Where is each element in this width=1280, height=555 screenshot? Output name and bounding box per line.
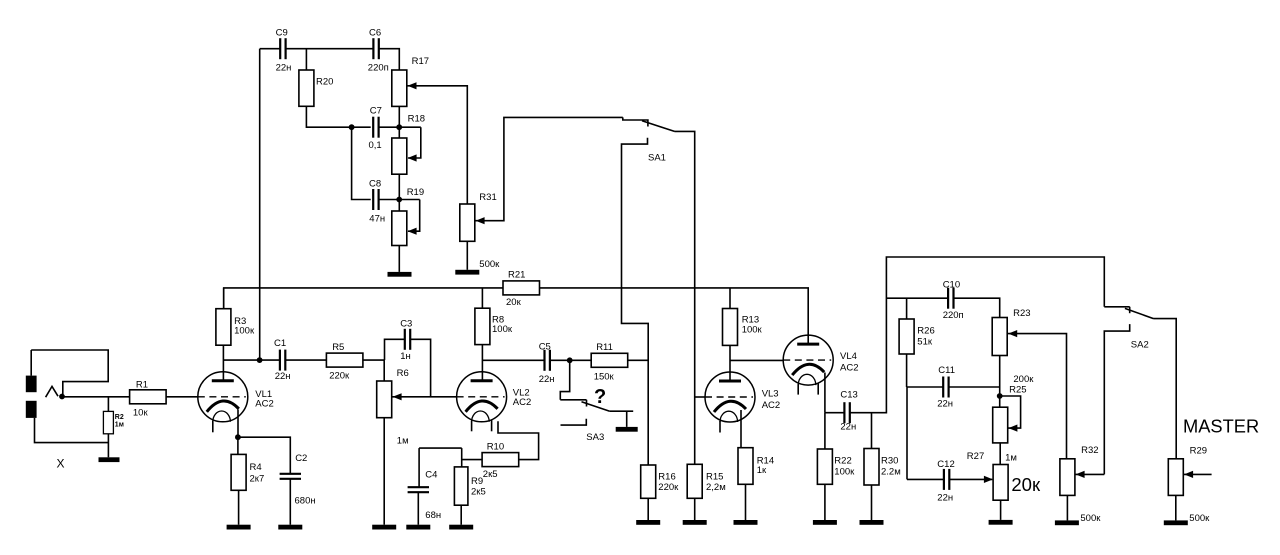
wire C7 to R18 node [379,126,421,128]
wire C1 row [223,359,280,361]
svg-text:500к: 500к [1189,513,1210,524]
wire C4 riser [418,448,420,487]
capacitor C3 [404,329,406,350]
ground below R27 [989,520,1013,525]
wire C7 node down to C8 row [352,127,371,199]
junction dot C1 row left riser [257,357,263,363]
wire R32 bottom to ground [1066,495,1068,520]
wire R1 to VL1 grid [166,396,198,398]
svg-text:1м: 1м [397,435,409,446]
capacitor C13 [843,402,845,423]
wire C1 to R5 [285,359,326,361]
svg-text:R6: R6 [397,368,409,379]
potentiometer R17 [392,70,407,106]
svg-text:150к: 150к [594,372,615,383]
svg-text:100к: 100к [234,326,255,337]
switch SA1 fixed contact [623,117,648,126]
resistor R13 [723,309,738,346]
switch SA2 fixed contact bar [1104,306,1129,308]
ground below C4 [406,525,430,530]
svg-text:R29: R29 [1190,446,1207,457]
junction dot R25 top node [997,393,1003,399]
svg-text:200к: 200к [1013,374,1034,385]
wire R27 bottom to ground [1000,500,1002,520]
svg-text:R4: R4 [250,462,262,473]
wire C2 bottom to ground [289,479,291,525]
wiper arrow of R25 [1008,425,1017,432]
wire R4 bottom to ground [238,490,240,524]
potentiometer R23 [992,318,1007,356]
resistor R16 [641,465,656,498]
ground below C2 [278,525,302,530]
svg-text:MASTER: MASTER [1183,416,1259,437]
svg-text:22н: 22н [276,63,292,74]
jack X bottom outline [35,418,109,443]
wire VL1 cathode [237,410,239,438]
wire R23 wiper to R32 top [1008,334,1067,459]
junction dot R18-R19 node [396,197,402,203]
wire R11 to R16 riser [628,359,649,361]
svg-text:R9: R9 [471,476,483,487]
svg-text:22н: 22н [539,374,555,385]
wire C6 to R17 top corner [379,49,400,70]
svg-text:R10: R10 [487,442,504,453]
potentiometer R32 [1060,459,1075,496]
ground below R19 [388,272,412,277]
wire R8 top from bus [481,288,483,308]
jack X upper contact block [26,376,37,393]
wire R17 bottom to R18 top [398,106,400,138]
svg-text:100к: 100к [742,325,763,336]
svg-text:C13: C13 [840,390,857,401]
wire VL3 plate node to VL4 grid [730,359,784,361]
wire R20 top riser [305,49,307,70]
svg-text:0,1: 0,1 [369,140,382,151]
wire C12 to R27 wiper [949,478,992,480]
potentiometer R31 [460,204,475,241]
svg-text:R23: R23 [1013,308,1030,319]
svg-text:AC2: AC2 [255,399,273,410]
capacitor C10 [947,288,949,309]
wire jack tip to R1 [62,396,130,398]
wire R32 wiper from SA2 [1076,473,1105,475]
svg-text:C4: C4 [425,470,437,481]
resistor R8 [475,308,490,344]
potentiometer R25 [993,407,1008,443]
svg-text:R18: R18 [408,114,425,125]
wiper arrow of R18 [408,154,417,161]
potentiometer R18 [392,138,407,174]
switch SA2 blade [1125,308,1154,318]
svg-text:R5: R5 [332,342,344,353]
svg-text:2к7: 2к7 [250,474,265,485]
svg-text:R20: R20 [316,77,333,88]
capacitor C9 [279,38,281,59]
capacitor C8 [372,189,374,210]
svg-text:220к: 220к [329,371,350,382]
potentiometer R27 [993,465,1008,501]
svg-text:C2: C2 [295,453,307,464]
switch SA3 blade [582,402,610,411]
svg-text:10к: 10к [133,408,149,419]
wire supply bus right segment to VL4 plate [540,288,809,345]
capacitor C1 [279,350,281,371]
wire R3 top from bus [223,288,225,309]
jack X top outline [31,350,108,394]
wire C13 to tone bus corner [850,257,1105,413]
wire cathode node to C2 [238,437,290,474]
wire R22 bottom to ground [824,484,826,520]
ground below R14 [734,520,758,525]
svg-text:20к: 20к [506,297,522,308]
wire R13 bottom to VL3 plate [729,345,731,381]
capacitor C4 [408,486,429,488]
resistor R11 [591,353,628,367]
jack X tip spring [46,386,58,397]
svg-text:R31: R31 [479,192,496,203]
wire R3 bottom to VL1 plate [222,345,224,381]
svg-text:22н: 22н [937,493,953,504]
resistor R30 [864,449,879,486]
switch SA3 pivot tick [586,400,588,407]
ground below R15 [683,520,707,525]
svg-text:R16: R16 [658,472,675,483]
wiper arrow of R23 [1008,330,1017,337]
wire C11 row left [907,386,944,388]
capacitor C6 [372,38,374,59]
resistor R26 [899,319,914,354]
capacitor C7 [372,117,374,138]
svg-text:AC2: AC2 [762,400,780,411]
potentiometer R29 [1168,459,1183,496]
svg-text:1н: 1н [400,351,411,362]
svg-text:C1: C1 [274,338,286,349]
triode VL2 [457,372,507,422]
svg-text:AC2: AC2 [513,397,531,408]
triode VL1 [198,372,248,422]
svg-text:R17: R17 [412,56,429,67]
ground below R30 [860,520,884,525]
switch SA3 fixed contact bar [560,399,586,401]
wire R6 wiper to VL2 grid [392,396,457,398]
wire left tone bus C11 to C12 [906,387,908,479]
jack X lower contact block [26,401,37,418]
svg-text:R32: R32 [1081,445,1098,456]
wire C5 row [482,359,544,361]
svg-text:R25: R25 [1009,385,1026,396]
wire R16 bottom to ground [647,498,649,520]
svg-text:220к: 220к [658,482,679,493]
resistor R5 [326,353,363,367]
switch SA1 blade [642,121,675,132]
wire SA2 common to R29 top [1154,319,1177,459]
capacitor C11 [942,377,944,398]
svg-text:22н: 22н [275,371,291,382]
wire SA3 ground drop [626,411,628,427]
wire VL2 cathode to R10 [498,421,539,459]
wire R19 bottom to ground [398,246,400,272]
wire R22 riser [824,413,826,449]
svg-text:22н: 22н [937,399,953,410]
wiper arrow of R29 [1184,471,1193,478]
svg-text:2,2м: 2,2м [706,482,726,493]
svg-text:SA3: SA3 [586,432,604,443]
wire R4 riser [237,437,239,454]
wire R29 bottom to ground [1175,495,1177,520]
ground below R16 [636,520,660,525]
junction dot jack tip node [59,394,65,400]
wire C11 to R25 riser [949,386,1000,388]
wire R20 bottom to C7 row [306,106,370,127]
wire R5 to R6 node [363,359,385,361]
wire C12 row left [907,478,944,480]
wire R14 bottom to ground [745,484,747,520]
ground below R32 [1055,520,1079,525]
svg-text:220п: 220п [368,63,389,74]
ground below R6 [372,525,396,530]
wire C10 to R23 riser [954,298,1000,317]
wire R30 bottom to ground [871,485,873,520]
wire R25 wiper loop [1000,396,1021,428]
wire R9 bottom to ground [460,505,462,525]
wire R26 bottom to C11 row [906,354,908,387]
wire R31 wiper to SA1 [476,117,623,220]
svg-text:SA2: SA2 [1131,340,1149,351]
wire R10 left to R9 node [462,459,482,461]
ground below R4 [227,525,251,530]
wire VL3 cathode to R14 [740,410,742,448]
resistor R21 [503,281,540,295]
resistor R1 [130,390,167,404]
wire supply bus left segment [224,288,503,309]
svg-text:22н: 22н [840,422,856,433]
ground below R31 [455,270,479,275]
wire R19 wiper loop [408,200,420,232]
svg-text:47н: 47н [369,214,385,225]
wire R6 node riser to C3 row [385,339,405,360]
resistor R9 [454,467,468,505]
svg-text:C12: C12 [937,459,954,470]
capacitor C5 [543,350,545,371]
wire R29 wiper output stub [1184,473,1212,475]
wire top row from left riser to C9 [260,48,281,50]
wire R9 node riser [461,448,463,467]
svg-text:2к5: 2к5 [471,487,486,498]
svg-text:R2: R2 [115,414,124,421]
svg-text:500к: 500к [479,259,500,270]
wire tone row C10 [886,297,948,299]
wire R17 wiper to R31 riser [407,86,468,204]
wiper arrow of R17 [408,82,417,89]
svg-text:500к: 500к [1080,513,1101,524]
wire R8 bottom to VL2 plate [481,345,483,381]
wire R26 top riser [906,298,908,319]
junction dot C5-R11-SA3 node [567,357,573,363]
svg-text:X: X [57,457,65,471]
wire left riser from C9 to C1 row [259,49,261,360]
resistor R15 [687,464,702,498]
ground below R22 [813,520,837,525]
wire SA1 common to VL3 grid and R15 [675,131,695,464]
svg-text:C10: C10 [943,280,960,291]
wire R18 bottom to R19 top [398,174,400,211]
wire R2 bottom to ground [107,434,109,458]
wire C8 to R19 node [379,199,420,201]
svg-text:VL3: VL3 [762,389,779,400]
svg-text:68н: 68н [425,510,441,521]
triode VL3 [705,372,755,422]
wire C3 to VL2 grid drop [410,339,430,397]
svg-text:R1: R1 [136,380,148,391]
svg-text:100к: 100к [492,324,513,335]
wire SA3 common to ground [610,410,634,412]
wiper arrow into R27 [984,476,993,483]
wire C4 top row [419,447,462,449]
svg-text:1м: 1м [1005,453,1017,464]
svg-text:C5: C5 [539,342,551,353]
wiper arrow of R31 [476,217,485,224]
wire R25 bottom to R27 [999,443,1001,465]
svg-text:220п: 220п [943,310,964,321]
wiper arrow of R19 [408,228,417,235]
wire R6 top riser [383,360,385,381]
jack X left side [30,350,32,376]
svg-text:C7: C7 [370,106,382,117]
svg-text:R26: R26 [917,326,934,337]
svg-text:SA1: SA1 [648,153,666,164]
svg-text:1к: 1к [757,465,767,476]
wire R30 riser [871,413,873,449]
capacitor C12 [943,469,945,490]
wire SA1 common into VL3 grid [695,396,706,398]
wiper arrow of R32 [1076,471,1085,478]
resistor R20 [299,70,314,106]
svg-text:1м: 1м [115,422,124,429]
svg-text:51к: 51к [917,337,933,348]
wire R18 wiper loop [408,127,421,158]
svg-text:R21: R21 [508,270,525,281]
svg-text:R11: R11 [596,342,613,353]
svg-text:C6: C6 [369,28,381,39]
ground below R9 [449,525,473,530]
resistor R10 [482,453,519,467]
svg-text:C8: C8 [369,179,381,190]
wiper arrow of R6 [393,393,402,400]
svg-text:100к: 100к [834,467,855,478]
svg-text:AC2: AC2 [840,363,858,374]
switch SA3 lower throw contact [561,419,587,425]
capacitor C2 [280,473,301,475]
svg-text:C11: C11 [938,365,955,376]
resistor R22 [817,449,832,484]
ground below SA3 [616,427,638,432]
svg-text:?: ? [594,386,606,408]
svg-text:R27: R27 [967,451,984,462]
switch SA1 lower throw contact [622,138,649,465]
wire R31 bottom to ground [466,241,468,269]
svg-text:R19: R19 [407,187,424,198]
wire R13 top from bus [729,288,731,309]
svg-text:20к: 20к [1011,474,1041,495]
switch SA2 pivot tick [1129,307,1131,313]
wire R15 bottom to ground [694,498,696,520]
resistor R3 [216,309,231,346]
svg-text:VL4: VL4 [840,351,857,362]
ground below R29 [1164,520,1188,525]
resistor R2 [103,411,113,433]
resistor R14 [738,448,753,485]
junction dot C7 left node [349,124,355,130]
junction dot VL1 cathode node [235,434,241,440]
svg-text:R30: R30 [881,456,898,467]
wire C4 bottom to ground [417,492,419,525]
ground below R2 [99,457,120,462]
svg-text:R15: R15 [706,472,723,483]
potentiometer R19 [392,211,407,246]
triode VL4 [783,335,833,385]
svg-text:C9: C9 [276,28,288,39]
wire SA3 riser from C5 node [560,360,569,400]
svg-text:2к5: 2к5 [483,469,498,480]
resistor R2 riser [107,397,109,412]
wire VL4 cathode down to C13 row [824,373,826,413]
svg-text:680н: 680н [295,496,316,507]
wire R23 bottom to R25 [999,356,1001,408]
svg-text:R22: R22 [834,456,851,467]
switch SA2 lower throw to R32 wiper [1104,324,1129,474]
wire C5 to R11 [550,359,591,361]
wire C13 row left [825,412,845,414]
svg-text:C3: C3 [400,319,412,330]
potentiometer R6 [377,381,392,418]
svg-text:2.2м: 2.2м [881,467,901,478]
junction dot R17-R18 node [396,124,402,130]
wire R6 bottom to ground [383,418,385,525]
resistor R4 [231,454,246,490]
wire C9 to C6 with R20 tap [286,48,374,50]
